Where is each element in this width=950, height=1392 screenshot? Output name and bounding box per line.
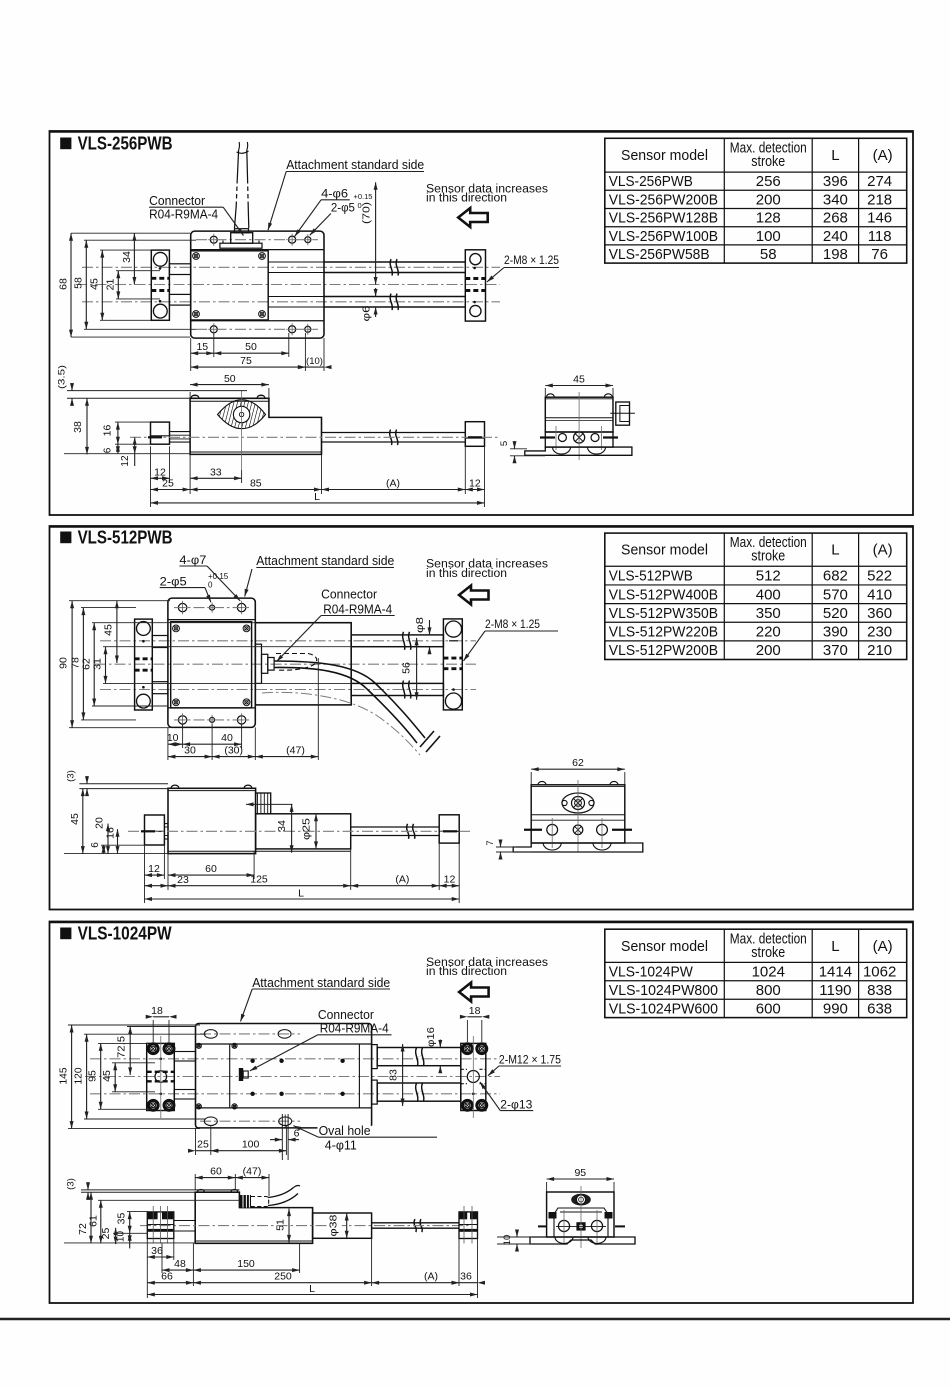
svg-text:682: 682 [823,568,848,585]
dimension 50 bottom [214,352,289,354]
svg-text:7: 7 [485,840,496,845]
connector block (plan) [231,233,253,244]
svg-text:Attachment standard side: Attachment standard side [286,158,424,172]
svg-text:VLS-512PWB: VLS-512PWB [78,527,173,547]
svg-text:522: 522 [867,568,892,585]
dimension 10 side [129,1233,131,1248]
end body 2 [531,785,625,843]
dimension L [151,502,485,504]
svg-text:stroke: stroke [751,154,785,170]
dimension 145 [71,1025,73,1129]
side break [407,824,409,839]
dimension 33 [190,477,242,479]
dimension 25 [151,489,191,491]
dimension 250 [193,1282,371,1284]
dimension 6 side [103,845,105,853]
svg-text:600: 600 [756,1000,781,1017]
dimension 58 [85,240,87,329]
shaft lines inside plate [268,261,324,263]
svg-text:(3): (3) [66,1178,77,1190]
dimension (47) [255,756,318,758]
left shaft stubs [169,264,190,275]
end body 3 [547,1192,614,1237]
svg-text:350: 350 [756,605,781,622]
centerline main horizontal 3 [85,1076,500,1078]
svg-text:2-φ5: 2-φ5 [331,201,355,215]
oval hole TL [204,1030,217,1039]
left end bracket (plan) [135,619,153,710]
svg-text:VLS-512PW400B: VLS-512PW400B [609,586,718,603]
dimension 45 upper [116,601,118,663]
rod phi38 [313,1213,372,1238]
left stubs [152,636,168,648]
svg-text:396: 396 [823,173,848,190]
panel VLS-256PWB frame [50,131,914,515]
dimension (3.5) lines [67,390,247,392]
left end bracket (plan) [151,250,169,320]
svg-text:21: 21 [105,279,117,291]
svg-text:410: 410 [867,586,892,603]
svg-text:Attachment standard side: Attachment standard side [256,554,394,568]
svg-text:50: 50 [224,373,236,385]
svg-text:2-M8 × 1.25: 2-M8 × 1.25 [504,253,559,267]
dimension 18 left 3 [153,1016,169,1018]
strip hole 6 [305,326,311,332]
svg-text:Attachment standard side: Attachment standard side [252,976,390,990]
end circles 2 [547,824,558,835]
dimension phi8 [429,620,431,635]
oval hole BR [279,1117,292,1126]
svg-text:31: 31 [92,658,104,670]
strip hole 1 [210,236,217,243]
label Oval hole [318,1126,373,1137]
svg-text:5: 5 [499,441,510,446]
side centerline [128,830,470,832]
centerline main horizontal [76,284,500,286]
shaft top exposed [324,261,465,263]
cable at connector going up [235,206,237,228]
dimension 72.5 [129,1027,131,1075]
svg-text:256: 256 [756,173,781,190]
dimension 21 [117,271,119,299]
table T1 sensor models [605,138,907,263]
svg-text:390: 390 [823,624,848,641]
connector stack [255,644,261,683]
svg-text:50: 50 [245,341,257,353]
svg-text:VLS-512PW350B: VLS-512PW350B [609,605,718,622]
svg-text:75: 75 [240,355,252,367]
svg-text:40: 40 [221,732,233,744]
svg-text:1414: 1414 [819,964,852,981]
svg-text:62: 62 [572,757,584,769]
dimension 6 [117,444,119,454]
svg-text:in this direction: in this direction [426,568,507,580]
screws 3 [196,1043,201,1048]
dimension 45 [101,250,103,320]
connector 3 [239,1068,243,1081]
dimension 45 3 [114,1063,116,1092]
svg-text:12: 12 [469,478,481,490]
svg-text:L: L [831,147,839,164]
svg-text:16: 16 [102,425,114,437]
dimension 120 [86,1034,88,1119]
dimension 48 [162,1269,193,1271]
plate strip line top [191,249,324,251]
centerline hole row bottom [196,328,318,330]
screw bottom-right [259,311,266,318]
end centerlines 3 [538,1225,546,1227]
svg-text:VLS-256PWB: VLS-256PWB [609,173,693,190]
strip hole 5 [289,326,296,333]
svg-text:838: 838 [867,982,892,999]
table T2 sensor models [605,533,907,659]
screws [173,625,180,632]
svg-text:61: 61 [88,1215,100,1227]
svg-text:570: 570 [823,586,848,603]
end view 45 dim [545,385,613,387]
svg-text:R04-R9MA-4: R04-R9MA-4 [323,602,392,616]
dimension (30) [212,756,255,758]
dimension 10 foot 3 [497,1236,532,1238]
svg-text:150: 150 [237,1258,255,1270]
svg-text:60: 60 [205,863,217,875]
side left bracket [145,815,165,845]
svg-text:(A): (A) [395,874,409,886]
side break mark [390,430,392,446]
dimension L 3 [147,1294,477,1296]
svg-text:12: 12 [148,863,160,875]
dimension 100 [211,1150,287,1152]
dimension (A) 3 [372,1282,459,1284]
side body 3 [195,1192,312,1243]
svg-text:(A): (A) [873,938,893,955]
svg-text:200: 200 [756,191,781,208]
dimension 51 [288,1209,290,1243]
svg-text:VLS-512PWB: VLS-512PWB [609,568,693,585]
shaft bottom exposed [324,296,465,298]
svg-text:240: 240 [823,228,848,245]
svg-text:51: 51 [275,1219,287,1231]
side view right bracket [465,422,484,447]
centerline top rod [90,1058,500,1060]
svg-text:stroke: stroke [751,945,785,961]
dimension 83 [402,1044,404,1106]
svg-text:45: 45 [89,278,101,290]
svg-text:118: 118 [868,228,892,245]
svg-text:200: 200 [756,642,781,659]
dimension phi38 [346,1213,348,1238]
dimension (A) [322,489,466,491]
svg-text:145: 145 [57,1067,69,1084]
end connector right [616,402,630,425]
svg-text:VLS-512PW220B: VLS-512PW220B [609,624,718,641]
dimension 125 [168,885,351,887]
svg-text:10: 10 [167,732,179,744]
svg-text:(47): (47) [286,745,305,757]
extension lines 3 [68,1024,200,1026]
strip hole 2 [289,236,296,243]
svg-text:10: 10 [502,1235,513,1246]
dimension 30 [168,756,212,758]
svg-text:95: 95 [574,1167,586,1179]
svg-text:340: 340 [823,191,848,208]
right mount bracket 3 [461,1043,486,1110]
cable curves 3 [268,1188,294,1198]
svg-text:45: 45 [103,624,115,636]
svg-text:VLS-256PWB: VLS-256PWB [78,133,173,153]
svg-text:0: 0 [208,580,213,589]
dimension 50 side view [189,392,191,398]
svg-text:125: 125 [250,874,268,886]
screw bottom-left [193,311,200,318]
svg-text:L: L [298,888,304,900]
side break 3 [414,1219,416,1232]
svg-text:33: 33 [210,466,222,478]
svg-text:45: 45 [573,374,585,386]
left mount bracket 3 [147,1043,175,1110]
svg-text:VLS-256PW128B: VLS-256PW128B [609,210,718,227]
svg-text:L: L [309,1283,315,1295]
extension lines [69,600,170,602]
dimension 34 connector [246,803,293,805]
bottom dims side view [144,845,146,903]
cable break marks [420,731,434,747]
strip hole 3 [305,237,311,243]
svg-text:35: 35 [116,1213,128,1225]
dimension 72 side [90,1192,92,1243]
svg-text:90: 90 [57,657,69,669]
dimension 12 right [465,489,484,491]
svg-text:Sensor model: Sensor model [621,938,708,955]
dimension 12 bracket [151,477,170,479]
side screw bump right [257,395,265,398]
dimension 35 3 [129,1212,131,1234]
centerline main horizontal [95,663,476,665]
side right bracket 3 [459,1212,478,1239]
cable curves [274,661,425,738]
side centerline 3 [140,1225,470,1227]
dimension phi25 [315,814,317,849]
svg-text:(A): (A) [873,542,893,559]
dimension 34 [133,233,135,284]
centerline oval rows [200,1033,300,1035]
collar bottom rod [372,1080,378,1104]
svg-text:φ38: φ38 [327,1214,339,1236]
dimension (3) 3 [81,1189,195,1191]
end connector oval 3 [571,1194,591,1206]
plate strip line bottom [191,320,324,322]
base plate (plan) [168,598,255,727]
svg-text:10: 10 [116,1231,127,1243]
oval hole TR [278,1030,291,1039]
dimension 15 bottom [190,338,192,371]
dimension 60 3 [234,1174,236,1190]
dimension (70) [375,182,377,284]
dimension L 2 [145,898,460,900]
strip hole 4 [210,326,217,333]
svg-text:25: 25 [100,1228,112,1240]
svg-text:62: 62 [80,658,92,670]
svg-text:4-φ6: 4-φ6 [321,187,348,201]
svg-text:+0.15: +0.15 [354,192,373,201]
screw top-right [259,253,266,260]
svg-text:2-φ13: 2-φ13 [500,1098,532,1112]
svg-text:2-φ5: 2-φ5 [160,575,187,589]
svg-text:VLS-1024PW600: VLS-1024PW600 [609,1000,718,1017]
svg-text:1024: 1024 [752,964,785,981]
svg-text:2-M12 × 1.75: 2-M12 × 1.75 [499,1052,561,1066]
dimension 85 [190,489,321,491]
break marks 3 [416,1048,418,1066]
svg-text:25: 25 [197,1139,209,1151]
svg-text:38: 38 [72,421,84,433]
svg-text:220: 220 [756,624,781,641]
end base 2 [513,843,643,852]
connector mount plate [220,243,262,248]
dimension 7 foot 2 [496,846,516,848]
break mark top shaft [390,259,392,276]
svg-text:512: 512 [756,568,781,585]
extension lines left dims [84,239,196,241]
dimension 36 bracket [147,1256,174,1258]
svg-text:250: 250 [274,1271,292,1283]
tube top rod [377,1048,461,1066]
svg-text:146: 146 [867,210,892,227]
dimension (47) 3 [235,1177,269,1179]
centerline bottom rod [90,1093,500,1095]
slider block (plan) [171,622,252,708]
side connector top [256,793,271,814]
dimension phi16 [439,1040,441,1048]
svg-text:230: 230 [867,624,892,641]
side connector 3 [240,1195,251,1208]
vertical centerline of window [241,390,243,470]
dimension 25 3 [196,1150,211,1152]
svg-text:95: 95 [87,1070,99,1082]
svg-text:18: 18 [151,1005,163,1017]
svg-text:15: 15 [196,341,208,353]
svg-text:58: 58 [760,246,777,263]
svg-text:198: 198 [823,246,848,263]
centerline bottom shaft [100,689,476,691]
svg-text:100: 100 [242,1139,260,1151]
svg-text:210: 210 [867,642,892,659]
dimension (3) lines [79,783,168,785]
svg-text:in this direction: in this direction [426,193,507,205]
shaft bottom (plan) [351,683,443,695]
svg-text:φ6: φ6 [360,305,372,321]
panel VLS-512PWB frame [50,526,914,910]
svg-text:Connector: Connector [321,587,377,601]
centerline hole row top [196,239,318,241]
end centerlines 2 [524,829,542,831]
svg-text:36: 36 [460,1271,472,1283]
svg-text:76: 76 [871,246,888,263]
svg-text:16: 16 [105,827,117,839]
svg-text:(A): (A) [424,1271,438,1283]
dimension 61 [100,1200,102,1243]
dimension 150 [193,1269,299,1271]
svg-text:60: 60 [210,1166,222,1178]
shaft top (plan) [351,635,443,647]
svg-text:25: 25 [162,478,174,490]
svg-text:34: 34 [276,820,288,832]
svg-text:Sensor model: Sensor model [621,147,708,164]
dimension 62 [93,623,95,706]
svg-text:(30): (30) [224,745,243,757]
svg-text:VLS-1024PW800: VLS-1024PW800 [609,982,718,999]
dimension 56 [416,638,418,700]
svg-text:(3.5): (3.5) [57,365,68,389]
svg-text:400: 400 [756,586,781,603]
svg-text:(A): (A) [873,147,893,164]
svg-text:VLS-512PW200B: VLS-512PW200B [609,642,718,659]
title VLS-1024PW [60,928,71,940]
svg-text:990: 990 [823,1000,848,1017]
strip holes bottom [178,716,186,724]
dimension 36 right [459,1282,478,1284]
dimension 12 right 2 [439,885,459,887]
thin shaft 3 [372,1222,459,1224]
svg-text:48: 48 [174,1258,186,1270]
svg-text:(47): (47) [243,1166,262,1178]
side view left bracket [151,422,170,444]
dimension 16 [117,422,119,444]
side rails left [170,431,191,433]
end lower flange [545,432,613,447]
base plate 3 (plan) [196,1024,372,1128]
svg-text:120: 120 [72,1067,84,1084]
svg-text:4-φ11: 4-φ11 [325,1139,357,1153]
dimension 18 right 3 [467,1016,481,1018]
centerline hole rows [174,607,250,609]
right end bracket (plan) [443,619,462,710]
side screw bump left [191,395,199,398]
bottom dims 3 side [146,1239,148,1299]
svg-text:520: 520 [823,605,848,622]
dimension (10) bottom [305,366,324,368]
left rails 3 [174,1052,195,1062]
svg-text:800: 800 [756,982,781,999]
svg-text:φ25: φ25 [301,818,313,840]
end centerlines [540,436,555,438]
svg-text:68: 68 [57,278,69,290]
dimension 45 side [82,789,84,854]
svg-text:45: 45 [101,1070,113,1082]
svg-text:72.5: 72.5 [115,1036,127,1058]
svg-text:L: L [831,542,839,559]
svg-text:85: 85 [250,478,262,490]
dimension 60 [168,874,254,876]
table T3 sensor models [605,929,907,1017]
centerline top shaft [100,640,476,642]
svg-text:(70): (70) [361,202,373,224]
strip lines [168,619,255,621]
end big circles [558,1220,569,1231]
dimension 20 [107,824,109,854]
svg-text:66: 66 [161,1271,173,1283]
dimension 68 [75,231,77,233]
svg-text:Connector: Connector [149,194,205,208]
svg-text:Sensor model: Sensor model [621,542,708,559]
end base 3 [530,1237,635,1244]
end screw bumps 2 [538,781,546,784]
dimension 31 [105,647,107,684]
svg-text:12: 12 [444,874,456,886]
strip lines 3 [196,1043,372,1045]
end view 62 dim [531,768,625,770]
side view body outline [190,398,321,454]
